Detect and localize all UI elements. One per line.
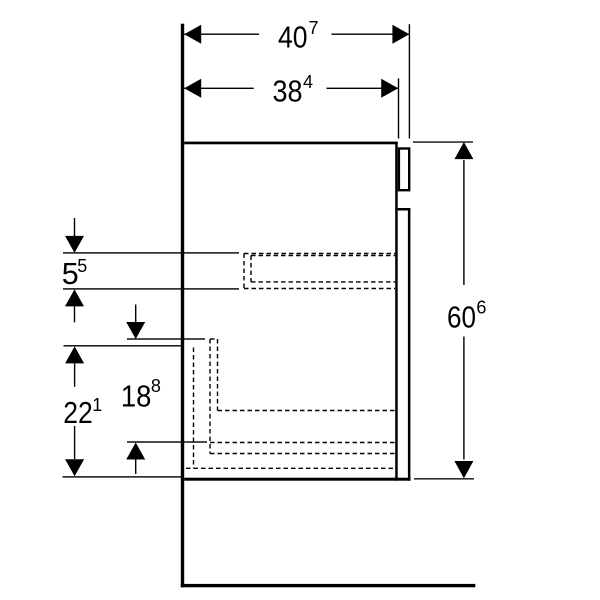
lower drawer dashed siphon outer vertical: [209, 339, 211, 454]
dimension 40 right arrow: [392, 25, 409, 44]
svg-text:18: 18: [121, 379, 151, 414]
svg-text:8: 8: [151, 376, 161, 396]
upper drawer dashed inner box: [251, 256, 395, 282]
lower door front panel top edge: [398, 208, 411, 211]
dimension 38 line: [184, 88, 254, 89]
dimension 60 bottom extension line: [414, 478, 474, 479]
dimension 5 up arrow: [65, 289, 84, 306]
dimension 40 line: [184, 34, 259, 35]
lower drawer dashed shelf line upper: [218, 410, 396, 412]
dimension 38 left arrow: [184, 79, 201, 98]
cabinet top edge: [184, 142, 398, 145]
svg-text:5: 5: [77, 256, 87, 276]
dimension 5 down arrow: [65, 236, 84, 253]
dimension 60 vertical line: [463, 160, 464, 285]
dimension 38 extension line: [398, 78, 399, 138]
dimension 18 bottom line: [127, 441, 207, 442]
dimension 22 bottom line: [63, 476, 182, 477]
svg-text:60: 60: [447, 299, 476, 334]
floor: [181, 584, 476, 587]
dimension 60 down arrow: [454, 461, 473, 478]
dimension 22 top line: [64, 345, 182, 346]
dimension 60 top extension line: [413, 141, 473, 142]
svg-text:1: 1: [92, 395, 102, 415]
lower drawer dashed back panel: [193, 348, 195, 469]
lower drawer dashed shelf line mid2: [210, 453, 395, 455]
wall: [181, 24, 184, 588]
dimension 60 up arrow: [454, 142, 473, 159]
dimension 18 top line: [127, 338, 205, 339]
dimension 22 down arrow: [65, 459, 84, 476]
upper drawer dashed outer box: [244, 254, 395, 289]
dimension 18 up arrow: [126, 443, 145, 460]
dimension 18 down arrow: [126, 322, 145, 339]
lower drawer dashed siphon inner vertical: [217, 339, 219, 411]
svg-text:40: 40: [278, 20, 308, 55]
dimension 22 up arrow: [65, 346, 84, 363]
svg-text:38: 38: [273, 74, 303, 109]
lower drawer dashed shelf line mid: [210, 442, 395, 444]
svg-text:22: 22: [63, 395, 93, 430]
dimension 38 right arrow: [381, 79, 398, 98]
svg-text:6: 6: [476, 297, 486, 317]
dimension 40 extension line: [409, 24, 410, 138]
svg-text:5: 5: [62, 256, 79, 291]
upper drawer front panel: [399, 149, 409, 191]
svg-text:4: 4: [303, 72, 313, 92]
dimension 5 bottom line: [63, 288, 239, 289]
cabinet right wall: [395, 142, 398, 481]
lower door front panel right edge: [408, 208, 411, 481]
cabinet bottom edge: [184, 478, 410, 481]
lower drawer dashed top cap: [210, 338, 218, 340]
svg-text:7: 7: [309, 18, 319, 38]
lower drawer dashed bottom line: [186, 467, 395, 469]
dimension 5 top line: [63, 252, 239, 253]
dimension 40 left arrow: [184, 25, 201, 44]
